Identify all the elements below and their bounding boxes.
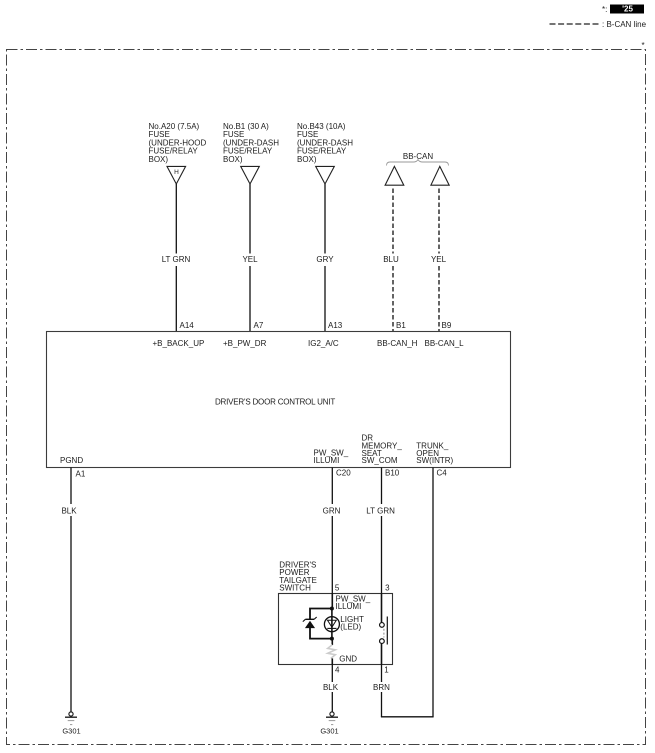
svg-text:1: 1 xyxy=(384,666,389,675)
svg-text:G301: G301 xyxy=(62,727,80,736)
svg-text:LT GRN: LT GRN xyxy=(162,255,191,264)
fuse F1 label No.A20 (7.5A) xyxy=(149,122,207,164)
svg-text:A14: A14 xyxy=(180,321,195,330)
wire W6 BLK (A1 to G301) xyxy=(70,468,72,713)
svg-text:'25: '25 xyxy=(622,5,633,14)
label LIGHT (LED) xyxy=(340,615,364,632)
wire from N2 to resistor xyxy=(331,639,333,645)
svg-text:BOX): BOX) xyxy=(149,155,169,164)
legend B-CAN dashed sample xyxy=(550,23,600,25)
svg-text:DRIVER'S DOOR CONTROL UNIT: DRIVER'S DOOR CONTROL UNIT xyxy=(215,398,335,407)
wire resistor to pin4 xyxy=(331,658,333,664)
LED D1 (LIGHT) xyxy=(324,609,339,639)
svg-text:4: 4 xyxy=(335,666,340,675)
wire W4 BLU dashed (BB-CAN_H to B1) xyxy=(392,189,394,332)
pin name DR MEMORY_SEAT SW_COM xyxy=(362,434,403,466)
wire W10 (pin5 into switch) xyxy=(331,593,333,608)
svg-text:YEL: YEL xyxy=(431,255,447,264)
wire contact to pin1 xyxy=(381,644,383,665)
svg-text:BLK: BLK xyxy=(61,506,77,515)
switch actuator bar xyxy=(386,617,388,645)
svg-text:SW(INTR): SW(INTR) xyxy=(416,456,453,465)
svg-text:B9: B9 xyxy=(442,321,452,330)
svg-text:BLU: BLU xyxy=(383,255,399,264)
switch S1 box xyxy=(279,594,393,665)
branch wire to zener xyxy=(310,609,332,639)
svg-text:C4: C4 xyxy=(437,468,448,477)
switch S1 label DRIVER'S POWER TAILGATE SWITCH xyxy=(279,560,317,592)
wire W13 BRN (pin1 to C4 wire) xyxy=(381,664,434,717)
svg-text:*:: *: xyxy=(602,5,607,14)
svg-text:GND: GND xyxy=(339,654,357,663)
legend asterisk note xyxy=(602,5,607,14)
fuse F1 symbol (triangle with H) xyxy=(167,166,186,184)
svg-text:A1: A1 xyxy=(76,470,86,479)
svg-text:+B_PW_DR: +B_PW_DR xyxy=(223,339,267,348)
wire W12 BLK (pin4 to G301) xyxy=(331,664,333,712)
ground G301 (right) xyxy=(320,712,338,736)
switch contact bottom xyxy=(380,639,385,644)
wire W2 YEL (fuse B1 to A7) xyxy=(249,184,251,332)
svg-text:BOX): BOX) xyxy=(223,155,243,164)
svg-text:: B-CAN line: : B-CAN line xyxy=(602,20,647,29)
wire W9 (C4 down right side) xyxy=(432,468,434,717)
node PW_SW_ILLUMI label xyxy=(336,594,371,611)
wire W5 YEL dashed (BB-CAN_L to B9) xyxy=(438,189,440,332)
resistor R1 (gray zigzag to GND) xyxy=(328,645,336,659)
svg-text:IG2_A/C: IG2_A/C xyxy=(308,339,339,348)
zener diode Z1 xyxy=(303,617,317,628)
fuse F3 symbol xyxy=(316,166,335,184)
wire W11 (pin3 into switch) xyxy=(381,593,383,622)
fuse F3 label No.B43 (10A) xyxy=(297,122,353,164)
BB-CAN brace xyxy=(387,160,449,166)
switch contact top xyxy=(380,623,385,628)
switch movable contact dashed xyxy=(383,629,385,638)
svg-text:A13: A13 xyxy=(328,321,343,330)
node junction dot N2 xyxy=(330,637,334,641)
svg-text:BB-CAN_H: BB-CAN_H xyxy=(377,339,418,348)
node junction dot N1 xyxy=(330,607,334,611)
svg-text:(LED): (LED) xyxy=(340,623,361,632)
svg-text:A7: A7 xyxy=(254,321,264,330)
driver's door control unit U1 box xyxy=(47,332,511,468)
svg-text:5: 5 xyxy=(335,583,340,592)
legend year box '25 xyxy=(610,5,644,14)
svg-text:H: H xyxy=(174,169,179,176)
svg-text:G301: G301 xyxy=(320,727,338,736)
svg-text:GRY: GRY xyxy=(316,255,334,264)
wire W8 LT GRN (B10 to switch pin3) xyxy=(381,468,383,594)
svg-text:+B_BACK_UP: +B_BACK_UP xyxy=(153,339,205,348)
svg-text:3: 3 xyxy=(385,583,390,592)
svg-text:B10: B10 xyxy=(385,468,400,477)
svg-text:BLK: BLK xyxy=(323,683,339,692)
fuse F2 symbol xyxy=(241,166,260,184)
svg-text:BRN: BRN xyxy=(373,683,390,692)
svg-text:B1: B1 xyxy=(396,321,406,330)
svg-text:ILLUMI: ILLUMI xyxy=(314,456,340,465)
svg-text:GRN: GRN xyxy=(323,506,341,515)
svg-text:PGND: PGND xyxy=(60,456,83,465)
svg-text:SW_COM: SW_COM xyxy=(362,456,398,465)
svg-text:C20: C20 xyxy=(336,468,351,477)
svg-text:SWITCH: SWITCH xyxy=(279,584,311,593)
BB-CAN connector triangle T5 xyxy=(431,166,449,185)
svg-text:*: * xyxy=(642,41,645,50)
fuse F2 label No.B1 (30 A) xyxy=(223,122,279,164)
BB-CAN connector triangle T4 xyxy=(385,166,404,185)
svg-text:LT GRN: LT GRN xyxy=(366,506,395,515)
svg-text:BB-CAN_L: BB-CAN_L xyxy=(425,339,465,348)
svg-text:ILLUMI: ILLUMI xyxy=(336,602,362,611)
ground G301 (left) xyxy=(62,712,80,736)
pin name PW_SW_ILLUMI xyxy=(314,449,349,466)
wire W3 GRY (fuse B43 to A13) xyxy=(324,184,326,332)
svg-text:YEL: YEL xyxy=(242,255,258,264)
wire W7 GRN (C20 to switch pin5) xyxy=(331,468,333,594)
pin name TRUNK_OPEN_SW(INTR) xyxy=(416,441,453,465)
wire W1 LT GRN (fuse A20 to A14) xyxy=(175,184,177,332)
svg-text:BOX): BOX) xyxy=(297,155,317,164)
